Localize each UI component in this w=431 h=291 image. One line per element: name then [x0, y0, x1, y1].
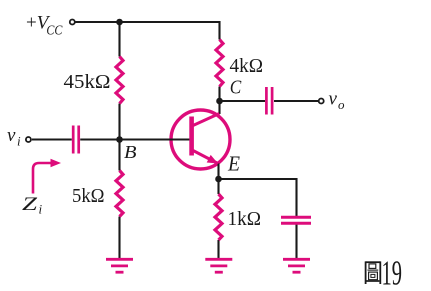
svg-text:5kΩ: 5kΩ	[72, 185, 105, 207]
svg-text:45kΩ: 45kΩ	[64, 71, 111, 93]
svg-text:E: E	[227, 152, 240, 176]
svg-text:B: B	[124, 142, 137, 162]
svg-text:C: C	[230, 77, 242, 99]
svg-text:19: 19	[382, 253, 403, 291]
svg-text:1kΩ: 1kΩ	[228, 208, 262, 230]
svg-text:4kΩ: 4kΩ	[230, 55, 264, 77]
